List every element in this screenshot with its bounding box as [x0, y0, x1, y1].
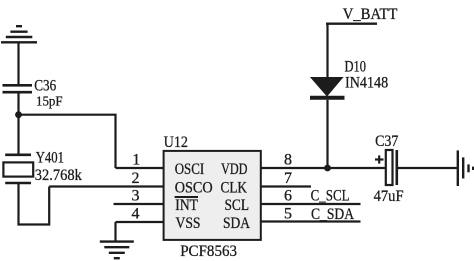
svg-text:6: 6 [284, 187, 292, 204]
svg-text:C_SDA: C_SDA [311, 206, 354, 223]
wire pin 3 [114, 203, 165, 205]
wire crystal bottom return to pin 2 [19, 183, 50, 225]
wire C37 to right ground [398, 167, 457, 169]
wire pin4 down to ground [114, 222, 116, 242]
svg-text:PCF8563: PCF8563 [180, 243, 237, 260]
svg-text:SCL: SCL [225, 197, 250, 214]
crystal Y401 [3, 155, 33, 183]
wire ground to C36 top [17, 42, 19, 85]
wire node B to C37 [328, 167, 386, 169]
wire pin 6 net C_SCL [261, 203, 361, 205]
diode D10 cathode bar [310, 96, 345, 100]
node A junction dot [15, 111, 22, 118]
svg-text:C_SCL: C_SCL [311, 188, 350, 205]
svg-text:C37: C37 [375, 133, 398, 150]
wire pin 5 net C_SDA [261, 220, 361, 222]
svg-text:VDD: VDD [221, 161, 248, 178]
wire node A to crystal top [17, 115, 19, 155]
wire pin 4 [116, 221, 165, 223]
svg-text:C36: C36 [34, 78, 56, 95]
ground GND top-left [1, 26, 37, 42]
svg-text:3: 3 [132, 187, 140, 204]
svg-text:Y401: Y401 [36, 150, 64, 167]
capacitor C36 [3, 85, 33, 92]
capacitor C37 plus sign [375, 155, 384, 163]
svg-text:VSS: VSS [176, 215, 201, 232]
wire node A to pin1 elbow [19, 115, 116, 168]
capacitor C37 positive plate [386, 150, 393, 185]
svg-text:4: 4 [132, 205, 140, 222]
overline on INT [175, 196, 198, 198]
svg-text:V_BATT: V_BATT [343, 6, 398, 23]
wire pin 8 to node B [261, 167, 328, 169]
svg-text:32.768k: 32.768k [35, 167, 82, 184]
svg-text:2: 2 [132, 170, 140, 187]
svg-text:CLK: CLK [221, 180, 248, 197]
wire pin 2 [49, 185, 164, 187]
power V_BATT bar [326, 23, 377, 25]
svg-text:D10: D10 [345, 59, 367, 76]
wire C36 bottom to node A [17, 92, 19, 115]
svg-text:INT: INT [175, 197, 198, 214]
ground GND bottom (VSS) [100, 242, 134, 259]
node B junction dot [324, 165, 331, 172]
wire pin 1 [116, 167, 165, 169]
diode D10 [311, 78, 343, 96]
svg-text:8: 8 [284, 151, 292, 168]
svg-text:5: 5 [284, 205, 292, 222]
wire diode cathode to node B [326, 100, 328, 168]
svg-text:15pF: 15pF [36, 94, 63, 109]
IC U12 body [164, 151, 261, 240]
svg-text:OSCO: OSCO [175, 180, 213, 197]
wire pin 7 stub [261, 185, 312, 187]
svg-text:47uF: 47uF [374, 188, 404, 205]
svg-text:OSCI: OSCI [175, 161, 205, 178]
svg-text:7: 7 [284, 170, 292, 187]
svg-text:1: 1 [132, 151, 140, 168]
svg-text:IN4148: IN4148 [345, 75, 388, 92]
capacitor C37 negative plate [395, 150, 398, 185]
svg-text:U12: U12 [164, 134, 188, 151]
wire V_BATT to diode anode [326, 24, 328, 79]
svg-text:SDA: SDA [223, 215, 250, 232]
ground GND right (rotated) [458, 150, 473, 186]
